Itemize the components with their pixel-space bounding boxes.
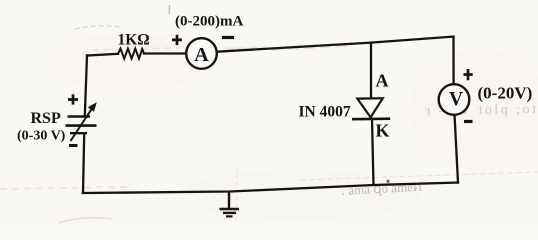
source plus sign bbox=[68, 94, 78, 104]
source minus sign bbox=[69, 144, 78, 147]
wire right vertical upper (corner to voltmeter) bbox=[452, 37, 454, 83]
resistor R1 zigzag bbox=[118, 49, 144, 59]
svg-text:(0-30 V): (0-30 V) bbox=[17, 129, 66, 144]
faint smudge right of ammeter bbox=[224, 48, 266, 50]
ammeter minus bbox=[222, 36, 234, 39]
faint pink dashes near resistor wire bbox=[92, 48, 180, 50]
voltmeter minus bbox=[464, 120, 473, 123]
wire diode branch upper bbox=[370, 43, 372, 98]
svg-text:A: A bbox=[376, 71, 389, 91]
faint pink dash bottom left bbox=[0, 187, 128, 189]
wire top-left horizontal (corner to resistor) bbox=[87, 54, 118, 56]
faint curve bottom left corner bbox=[58, 218, 112, 223]
voltmeter U2 circle bbox=[439, 84, 470, 115]
svg-text:1KΩ: 1KΩ bbox=[118, 32, 150, 49]
wire ammeter to top-right corner bbox=[218, 37, 454, 52]
svg-text:A: A bbox=[194, 44, 209, 66]
source RSP plates bbox=[66, 117, 97, 134]
junction dot diode bottom bbox=[386, 180, 389, 183]
ammeter plus bbox=[172, 35, 182, 45]
svg-text:V: V bbox=[449, 89, 463, 110]
svg-text:IN 4007: IN 4007 bbox=[299, 104, 351, 121]
wire diode branch lower bbox=[372, 119, 374, 185]
diode D1 cathode bar bbox=[352, 117, 390, 120]
wire right vertical lower (voltmeter to bottom) bbox=[455, 116, 458, 182]
wire resistor to ammeter bbox=[144, 52, 185, 54]
ground symbol bbox=[220, 192, 240, 217]
faint pencil curve top bbox=[75, 26, 120, 29]
faint smudge under top wire mid bbox=[272, 46, 350, 50]
faint bleed-through table line vertical bbox=[236, 168, 237, 222]
svg-text:(0-200)mA: (0-200)mA bbox=[175, 14, 243, 30]
faint stray tick above ammeter label bbox=[168, 5, 170, 14]
source RSP arrow bbox=[71, 102, 97, 141]
svg-text:(0-20V): (0-20V) bbox=[478, 84, 533, 103]
diode D1 triangle bbox=[357, 98, 383, 117]
wire left vertical upper bbox=[85, 56, 87, 117]
svg-text:RSP: RSP bbox=[31, 110, 61, 127]
ammeter U1 circle bbox=[186, 38, 217, 69]
wire bottom bbox=[83, 183, 458, 194]
wire left vertical lower bbox=[83, 134, 84, 193]
faint bleed-through table line horizontal bbox=[300, 172, 538, 180]
voltmeter plus bbox=[464, 69, 473, 80]
svg-text:K: K bbox=[376, 121, 390, 141]
